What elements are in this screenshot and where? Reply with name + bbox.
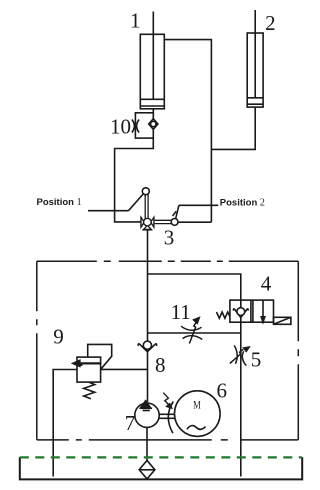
relief valve 9 spring <box>84 382 95 399</box>
valve 3 bottom port <box>142 225 152 230</box>
svg-text:3: 3 <box>164 226 175 250</box>
wire C1 rod-side port to node <box>164 40 211 223</box>
cylinder C1 body <box>140 34 164 109</box>
check valve of valve 10 <box>149 119 158 130</box>
svg-text:5: 5 <box>251 348 262 372</box>
valve 4 body <box>230 300 274 322</box>
wire pump suction <box>146 427 148 460</box>
relief valve 9 flow path <box>73 360 101 366</box>
svg-text:6: 6 <box>216 379 227 403</box>
svg-text:4: 4 <box>261 271 272 295</box>
lever B <box>173 205 179 219</box>
cylinder C2 rod line <box>254 10 256 98</box>
drive shaft <box>159 414 174 418</box>
svg-text:2: 2 <box>265 11 276 35</box>
svg-text:M: M <box>193 399 201 412</box>
link rod valve 3 to pivot B <box>155 220 172 223</box>
svg-text:Position 1: Position 1 <box>37 197 82 208</box>
pivot A <box>142 188 149 195</box>
wire main pressure line <box>147 230 149 402</box>
cylinder C2 body <box>247 33 263 107</box>
lever A of valve 3 <box>129 194 144 211</box>
throttle arcs of valve 10 <box>132 120 139 133</box>
oil level (green dashed) <box>20 456 302 458</box>
relief valve 9 body <box>77 357 101 382</box>
svg-text:7: 7 <box>125 411 136 435</box>
svg-text:Position 2: Position 2 <box>220 198 265 209</box>
wire pivot B to node <box>178 221 211 223</box>
valve 4 check position flow line <box>240 300 242 322</box>
relief valve 9 pilot bonnet <box>88 344 112 369</box>
cylinder C1 rod line <box>152 12 154 100</box>
svg-text:1: 1 <box>130 8 141 32</box>
svg-text:8: 8 <box>155 353 166 377</box>
wire valve 10 to valve 3 left port <box>115 138 154 222</box>
motor 6 <box>175 391 221 437</box>
throttle valve 11 <box>181 318 202 344</box>
valve 4 open position arrow <box>261 300 265 322</box>
wire pump line to relief valve <box>101 368 148 370</box>
enclosure left edge <box>36 261 38 440</box>
valve 3 ball <box>144 218 152 226</box>
check valve 8 <box>138 341 157 352</box>
pivot B <box>171 219 178 226</box>
wire bypass line <box>148 332 241 334</box>
wire Position 1 <box>88 210 129 212</box>
enclosure bottom edge <box>37 439 299 441</box>
svg-text:11: 11 <box>171 300 191 324</box>
filter <box>139 460 155 479</box>
wire Position 2 <box>179 204 218 206</box>
enclosure (power unit dash-dot boundary) top edge <box>37 260 299 262</box>
tank <box>20 457 302 479</box>
enclosure right edge <box>297 261 299 440</box>
pump 7 <box>135 401 159 428</box>
mechanical link pivot A to valve 3 <box>145 195 148 219</box>
drive arrow <box>163 393 172 408</box>
throttle valve 5 <box>230 345 249 365</box>
valve 4 check ball <box>233 308 248 318</box>
valve 4 solenoid <box>274 317 291 324</box>
valve 3 right port <box>151 217 154 228</box>
svg-text:9: 9 <box>53 324 64 348</box>
wire C1 cap-side port down <box>152 109 154 113</box>
valve 4 spring <box>217 312 230 318</box>
valve 3 left port <box>141 217 144 228</box>
wire relief valve drain to tank <box>53 370 77 477</box>
wire valve 4 to bypass line <box>240 322 242 476</box>
svg-text:10: 10 <box>110 115 131 139</box>
wire junction to C2 bottom port <box>211 107 255 149</box>
rotation arc <box>168 402 173 434</box>
wire branch to valve 4 <box>148 274 241 300</box>
one-way throttle valve 10 body <box>135 113 153 138</box>
